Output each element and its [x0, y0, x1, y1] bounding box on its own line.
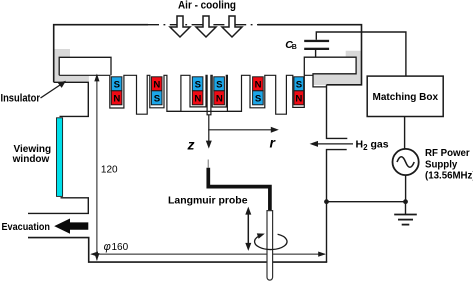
Langmuir probe tip (thin) — [207, 160, 209, 168]
air-cooling arrow 2 — [196, 16, 216, 37]
chamber top outer wall (left solid part) — [54, 25, 148, 83]
matching box — [367, 76, 443, 116]
svg-text:(13.56MHz): (13.56MHz) — [425, 171, 473, 182]
svg-text:S: S — [154, 93, 161, 104]
svg-text:N: N — [113, 93, 120, 104]
svg-text:S: S — [195, 80, 202, 91]
svg-text:Supply: Supply — [425, 159, 458, 170]
magnet M6 (S top) — [294, 77, 304, 105]
chamber right wall upper (with H2 feedthrough upper bar) — [327, 85, 348, 139]
svg-text:N: N — [255, 80, 262, 91]
magnet M4 (S top) — [214, 77, 225, 105]
magnet M1 (S top) — [111, 77, 122, 105]
wire matching box to RF supply — [404, 117, 406, 150]
powered electrode left slab — [59, 57, 111, 75]
probe rotation arrow (ellipse) — [255, 234, 287, 249]
magnet M3 (S top) — [192, 77, 203, 105]
chamber right wall lower (with H2 feedthrough lower bar) — [327, 150, 347, 263]
probe up-down motion arrow — [247, 212, 249, 246]
chamber top outer wall (right solid part) — [258, 25, 362, 85]
insulator pointer arrow — [41, 84, 62, 98]
CB stem to electrode — [315, 50, 317, 57]
insulator left (gray block) — [55, 49, 89, 82]
insulator right (gray block) — [313, 51, 362, 85]
viewing window glass (cyan) — [57, 118, 63, 197]
ground symbol — [394, 202, 417, 225]
svg-text:N: N — [153, 80, 160, 91]
svg-text:S: S — [114, 80, 121, 91]
svg-text:N: N — [295, 93, 302, 104]
central cross line under pockets P3-P4 — [167, 110, 242, 112]
blocking capacitor CB plates — [304, 40, 329, 42]
svg-text:N: N — [194, 93, 201, 104]
evacuation arrow (thick) — [54, 219, 88, 234]
svg-text:RF Power: RF Power — [425, 148, 470, 159]
H2 gas arrow — [317, 143, 354, 145]
wire RF to ground junction — [405, 175, 407, 202]
powered electrode right slab — [304, 57, 356, 87]
svg-text:120: 120 — [101, 165, 118, 176]
probe shaft — [267, 211, 273, 281]
svg-text:B: B — [292, 44, 297, 51]
svg-text:Matching Box: Matching Box — [373, 92, 439, 103]
svg-text:z: z — [187, 137, 195, 153]
z axis line — [208, 115, 210, 142]
magnet M2 (N top) — [151, 77, 162, 105]
junction dot left — [324, 199, 329, 204]
junction dot right — [403, 199, 408, 204]
svg-text:Insulator: Insulator — [1, 93, 41, 105]
dimension line 120 (vertical) — [96, 76, 98, 261]
evacuation port lower wall, chamber bottom outer wall — [28, 238, 327, 263]
svg-text:Air - cooling: Air - cooling — [178, 0, 236, 11]
svg-text:window: window — [12, 154, 50, 165]
wire CB to matching box — [316, 32, 406, 76]
svg-text:N: N — [216, 93, 223, 104]
svg-text:S: S — [255, 93, 262, 104]
viewing window port top — [60, 82, 89, 116]
air-cooling arrow 3 — [222, 16, 242, 37]
dimension line phi-160 (horizontal) — [92, 253, 325, 255]
svg-text:S: S — [296, 80, 303, 91]
svg-text:Langmuir probe: Langmuir probe — [168, 195, 248, 207]
svg-text:S: S — [216, 80, 223, 91]
svg-text:H2 gas: H2 gas — [356, 139, 389, 153]
r axis line — [208, 129, 272, 131]
viewing window port bottom / wall to evacuation port — [28, 198, 88, 214]
junction line chamber to ground — [327, 201, 406, 203]
svg-text:φ: φ — [104, 241, 111, 253]
air-cooling centerline (dash-dot) — [148, 24, 258, 26]
svg-text:160: 160 — [112, 242, 129, 253]
RF power supply source — [393, 149, 419, 175]
air-cooling arrow 1 — [170, 16, 190, 37]
Langmuir probe arm (thick) — [208, 168, 270, 211]
magnet M5 (N top) — [253, 77, 264, 105]
electrode underside with magnet pockets and notches — [59, 75, 313, 115]
insulator bottom border left — [54, 81, 89, 83]
svg-text:Evacuation: Evacuation — [2, 221, 51, 233]
